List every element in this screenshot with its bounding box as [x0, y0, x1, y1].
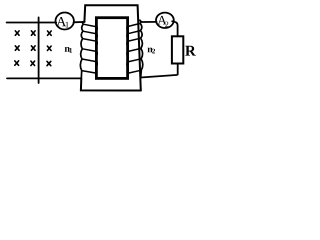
- ammeter A1: [55, 13, 73, 30]
- wire secondary top to A2: [140, 20, 157, 22]
- transformer core inner window: [96, 18, 127, 79]
- wire A2 to resistor: [172, 21, 177, 36]
- transformer core outer outline: [81, 5, 141, 90]
- field cross x r3c1: [15, 61, 19, 65]
- label n1: [65, 47, 72, 53]
- field cross x r3c2: [31, 61, 35, 65]
- field cross x r1c1: [15, 31, 19, 35]
- wire top rail left segment: [7, 22, 57, 24]
- field cross x r2c1: [15, 46, 19, 50]
- field cross x r3c3: [47, 61, 51, 65]
- label R: [185, 46, 196, 56]
- conducting rod: [38, 17, 40, 83]
- primary winding n1 coil: [80, 22, 97, 79]
- resistor R body: [172, 36, 183, 63]
- wire resistor bottom to secondary bottom: [141, 64, 178, 78]
- field cross x r2c2: [31, 46, 35, 50]
- field cross x r1c3: [48, 31, 52, 35]
- ammeter A2: [156, 13, 174, 28]
- wire top rail right segment (A1 to primary): [74, 21, 85, 23]
- wire bottom rail: [7, 77, 81, 79]
- secondary winding n2 coil: [127, 20, 143, 77]
- label n2: [147, 48, 155, 54]
- field cross x r1c2: [31, 31, 35, 35]
- field cross x r2c3: [47, 46, 51, 50]
